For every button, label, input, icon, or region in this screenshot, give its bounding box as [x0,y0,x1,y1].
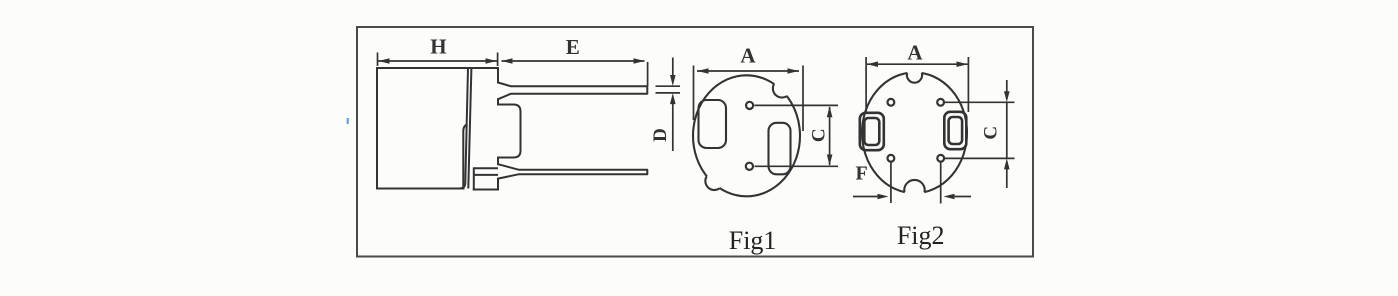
Fig1 bottom pin hole [746,163,753,170]
Fig1 label A [740,44,756,68]
bobbin flange right edge segments [474,68,498,190]
Fig2 left bracket slot [860,113,884,150]
Fig1 caption [729,226,777,255]
Fig2 label A [907,41,923,65]
bottom lead wire [474,164,648,178]
Fig1 dimension C [755,105,839,166]
blue speck artifact [347,118,349,124]
label H [430,34,446,58]
svg-text:C: C [809,128,830,142]
Fig1 top-right keying notch [773,84,787,98]
svg-text:E: E [566,35,580,59]
Fig2 pin hole bottom-right [937,155,944,162]
Fig1 bottom-left keying notch [705,176,719,190]
Fig2 label C [981,126,1002,140]
svg-text:F: F [855,162,867,184]
Fig1 right slot [769,123,791,175]
Fig1 base circle outline [693,75,800,196]
winding hook line [463,125,467,189]
Fig2 top notch [907,73,922,83]
Fig1 left slot [699,100,727,148]
dimension E [502,61,648,86]
svg-text:Fig2: Fig2 [897,221,945,250]
svg-text:A: A [907,41,923,65]
Fig2 caption [897,221,945,250]
washer double line inside body [461,68,472,189]
label E [566,35,580,59]
Fig2 bottom notch [904,180,924,192]
top lead wire [498,83,647,100]
bobbin hub bulge [498,105,521,158]
svg-text:Fig1: Fig1 [729,226,777,255]
dimension H [378,53,498,67]
Fig2 pin hole bottom-left [888,155,895,162]
Fig2 pin hole top-left [888,99,895,106]
Fig1 top pin hole [746,102,753,109]
svg-text:A: A [740,44,756,68]
Fig2 dimension A [866,57,968,112]
svg-text:C: C [981,126,1002,140]
Fig2 dimension C [945,80,1015,188]
Fig2 dimension F [853,163,971,204]
Fig2 pin hole top-right [937,99,944,106]
Fig2 right bracket slot [944,112,966,149]
Fig1 label C [809,128,830,142]
svg-text:D: D [650,128,671,142]
Fig2 base circle outline [862,66,967,202]
dimension D [656,58,681,152]
label D [650,128,671,142]
svg-text:H: H [430,34,446,58]
Fig1 dimension A [694,66,804,132]
Fig2 label F [855,162,867,184]
border frame of drawing [357,27,1033,257]
inductor body side view: shield can outline [377,68,498,189]
